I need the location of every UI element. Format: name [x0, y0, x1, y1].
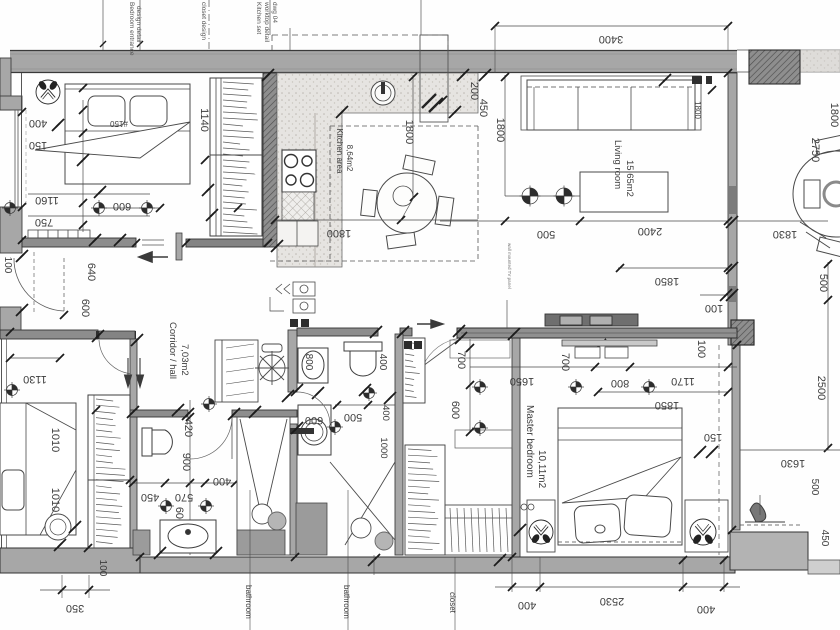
- svg-text:100: 100: [705, 302, 723, 314]
- closet wardrobe strip top: [403, 338, 425, 403]
- svg-text:10,11m2: 10,11m2: [536, 450, 547, 489]
- closet shelves mid: [455, 430, 512, 448]
- svg-text:450: 450: [819, 530, 830, 547]
- bathroom2 left wall: [288, 330, 297, 555]
- svg-text:350: 350: [66, 602, 84, 614]
- wardrobe bedroom2: [88, 395, 130, 548]
- svg-text:2530: 2530: [600, 595, 624, 607]
- bed B1: [35, 84, 190, 184]
- dashed roof line above kitchen: [272, 34, 448, 36]
- terrace table: [793, 135, 840, 256]
- bottom exterior wall left: [0, 548, 140, 573]
- closet hanging rail: [445, 505, 512, 555]
- svg-text:500: 500: [344, 411, 362, 423]
- top leader texts: [102, 0, 104, 50]
- desk in corridor: [215, 340, 258, 402]
- svg-text:570: 570: [175, 491, 193, 503]
- top dim 3400: [495, 25, 728, 27]
- svg-text:1010: 1010: [49, 428, 61, 452]
- svg-text:400: 400: [518, 599, 536, 611]
- svg-text:1800: 1800: [828, 103, 840, 127]
- TV unit above master wall: [545, 314, 638, 326]
- left exterior wall mid: [0, 207, 22, 253]
- WC dims: [189, 400, 191, 555]
- counter lower cabinet: [277, 221, 318, 246]
- bottom exterior wall main: [140, 557, 735, 573]
- svg-text:1830: 1830: [773, 228, 797, 240]
- shower2: [330, 462, 395, 550]
- leader line x421: [420, 0, 422, 35]
- svg-text:150: 150: [704, 431, 722, 443]
- bed B2: [0, 403, 76, 535]
- svg-text:640: 640: [85, 263, 97, 281]
- bedroom1 dims left: [82, 100, 84, 232]
- svg-text:1130: 1130: [23, 373, 47, 385]
- left wall glazing bedroom2: [1, 331, 3, 548]
- terrace misc bottom: [745, 503, 785, 522]
- kitchen dim 1800 horizontal: [275, 219, 478, 221]
- svg-text:1800: 1800: [494, 118, 506, 142]
- corridor arrows: [125, 358, 144, 387]
- svg-text:100: 100: [97, 560, 108, 577]
- svg-text:2400: 2400: [638, 225, 662, 237]
- sink bathroom2: [298, 348, 328, 383]
- stool bedroom2: [45, 514, 71, 540]
- svg-text:Kitchen set: Kitchen set: [255, 2, 262, 34]
- svg-text:600: 600: [113, 200, 131, 212]
- bathroom2 door arc: [297, 392, 330, 424]
- svg-text:500: 500: [809, 479, 820, 496]
- svg-text:bathroom: bathroom: [244, 585, 253, 619]
- svg-text:150: 150: [29, 139, 47, 151]
- closet wardrobe strip bottom: [405, 445, 445, 555]
- closet right wall: [512, 334, 520, 557]
- wall bedroom2 right: [130, 339, 137, 555]
- svg-text:450: 450: [141, 491, 159, 503]
- column living corner: [731, 320, 754, 345]
- svg-text:1800: 1800: [327, 227, 351, 239]
- TV console inside master: [562, 340, 657, 358]
- svg-text:1010: 1010: [49, 488, 61, 512]
- svg-text:7,03m2: 7,03m2: [179, 344, 190, 376]
- svg-text:400: 400: [213, 475, 231, 487]
- entry door leaf on wall: [142, 239, 268, 247]
- svg-text:Master bedroom: Master bedroom: [524, 405, 535, 478]
- living dims: [504, 75, 506, 196]
- gray block WC1: [133, 530, 150, 555]
- dining table: [361, 155, 454, 249]
- master bed: [558, 408, 682, 545]
- right wall lower: [732, 345, 740, 530]
- bathroom2 top wall: [297, 328, 412, 336]
- svg-text:worktop detail: worktop detail: [263, 1, 270, 43]
- closet shelf top: [450, 340, 510, 358]
- door hinge marks: [96, 331, 103, 339]
- electrical symbols kitchen wall: [270, 282, 315, 313]
- stove: [282, 150, 316, 192]
- washing machine: [290, 405, 331, 455]
- wardrobe bedroom1: [210, 78, 262, 236]
- bedroom1 misc ticks: [52, 123, 60, 131]
- master bedroom top wall: [457, 328, 737, 338]
- svg-text:bathroom: bathroom: [342, 585, 351, 619]
- svg-text:#150: #150: [110, 119, 128, 128]
- kitchen stippled floor L: [277, 73, 478, 267]
- bathroom2 dims: [335, 404, 395, 406]
- svg-text:Living room: Living room: [612, 140, 623, 189]
- office chair: [255, 344, 289, 385]
- svg-text:1160: 1160: [35, 194, 59, 206]
- shower1 seat: [237, 530, 285, 555]
- lamp left: [529, 520, 553, 544]
- svg-text:Bedroom entrance: Bedroom entrance: [128, 2, 135, 56]
- right wall living/terrace: [728, 73, 737, 345]
- bottom-right light extension: [808, 560, 840, 574]
- WC door arc: [190, 417, 232, 459]
- left wall window glazing bedroom1: [14, 110, 16, 207]
- svg-text:dwg 04: dwg 04: [271, 2, 278, 23]
- coffee table: [580, 172, 668, 212]
- svg-text:100: 100: [2, 257, 13, 274]
- kitchen dim 1800 vertical: [412, 75, 414, 197]
- leader bathroom1: [249, 490, 251, 630]
- svg-text:400: 400: [29, 117, 47, 129]
- register bedroom2: [4, 382, 20, 398]
- svg-text:2750: 2750: [809, 138, 821, 162]
- svg-text:700: 700: [559, 353, 571, 371]
- svg-text:600: 600: [79, 299, 91, 317]
- bedroom1 600 dim row: [95, 207, 160, 209]
- shower2 gray block: [296, 503, 327, 555]
- svg-text:400: 400: [377, 354, 388, 371]
- svg-text:1850: 1850: [655, 275, 679, 287]
- kitchen sink: [371, 81, 395, 105]
- svg-text:100: 100: [695, 340, 707, 358]
- radiator bedroom1: [28, 230, 90, 238]
- leader bathroom2: [347, 490, 349, 630]
- bedroom2 door leaf: [99, 331, 135, 374]
- svg-text:1800: 1800: [403, 120, 415, 144]
- bathroom2 right wall: [395, 334, 403, 555]
- bottom-right wall block: [730, 532, 808, 570]
- bedroom2 top wall: [0, 330, 98, 339]
- entry arrow: [139, 252, 168, 262]
- sofa: [521, 76, 701, 130]
- svg-text:500: 500: [537, 228, 555, 240]
- kitchen dashed boundary: [330, 125, 478, 127]
- svg-text:600: 600: [305, 414, 323, 426]
- svg-text:1170: 1170: [671, 375, 695, 387]
- toilet WC1: [142, 428, 172, 456]
- dim 350 bottom-left: [61, 575, 63, 598]
- dashed line master right: [718, 345, 720, 555]
- svg-text:900: 900: [180, 453, 192, 471]
- left wall corner block: [0, 307, 21, 331]
- balcony door dashed: [420, 35, 448, 122]
- leader closet: [454, 557, 456, 630]
- bedroom2 dim 1130: [10, 357, 60, 359]
- entry leaf dash: [33, 252, 35, 312]
- bottom dim chain master: [511, 557, 513, 592]
- svg-text:Corridor / hall: Corridor / hall: [167, 322, 178, 379]
- master dims: [469, 339, 471, 432]
- svg-text:Kitchen area: Kitchen area: [335, 129, 344, 174]
- svg-text:500: 500: [817, 274, 829, 292]
- master bottom marks: [368, 558, 376, 566]
- svg-text:closet design: closet design: [200, 2, 207, 40]
- nightstand left: [527, 500, 555, 552]
- svg-text:design detail: design detail: [135, 6, 142, 43]
- top-right wall block: [749, 50, 800, 84]
- lamp right: [690, 519, 716, 545]
- counter crosshatch: [282, 192, 314, 221]
- svg-text:450: 450: [477, 99, 489, 117]
- svg-text:1630: 1630: [781, 457, 805, 469]
- svg-text:400: 400: [380, 405, 391, 421]
- wall dark dots: [290, 319, 298, 327]
- svg-text:600: 600: [449, 401, 461, 419]
- living ceiling lights: [505, 195, 580, 197]
- svg-text:400: 400: [697, 603, 715, 615]
- svg-text:1800: 1800: [693, 101, 702, 119]
- washbasin WC1: [160, 520, 216, 553]
- svg-text:1000: 1000: [378, 437, 389, 458]
- svg-text:1850: 1850: [655, 399, 679, 411]
- svg-text:800: 800: [611, 377, 629, 389]
- nightstand right: [685, 500, 728, 552]
- svg-text:1650: 1650: [510, 375, 534, 387]
- wall stub right of entry: [176, 233, 182, 260]
- entry door arc: [14, 258, 64, 311]
- top exterior wall: [10, 50, 737, 73]
- wall marks top living: [692, 76, 702, 84]
- socket circles: [521, 504, 527, 510]
- svg-text:700: 700: [455, 351, 467, 369]
- svg-text:1140: 1140: [198, 108, 210, 132]
- closet door opening + leaf: [423, 338, 461, 366]
- terrace top wall light: [737, 50, 840, 72]
- kitchen left wall dark: [263, 73, 277, 247]
- WC top wall: [88, 410, 297, 417]
- svg-text:15,65m2: 15,65m2: [624, 160, 635, 197]
- svg-text:8,64m2: 8,64m2: [345, 145, 354, 172]
- bedroom1 bottom wall: [22, 238, 136, 247]
- junction ticks: [262, 73, 270, 81]
- left exterior wall upper: [0, 58, 22, 110]
- svg-text:750: 750: [35, 216, 53, 228]
- svg-text:200: 200: [468, 82, 480, 100]
- svg-text:420: 420: [182, 419, 194, 437]
- sconce bedroom1: [36, 80, 60, 104]
- shower guest: [237, 417, 290, 555]
- svg-text:closet: closet: [448, 592, 457, 614]
- svg-text:2500: 2500: [815, 376, 827, 400]
- svg-text:800: 800: [303, 354, 314, 371]
- svg-text:3400: 3400: [599, 33, 623, 45]
- arrow into master: [417, 320, 443, 328]
- svg-text:wall mounted TV panel: wall mounted TV panel: [507, 243, 512, 289]
- toilet bathroom2: [344, 342, 382, 376]
